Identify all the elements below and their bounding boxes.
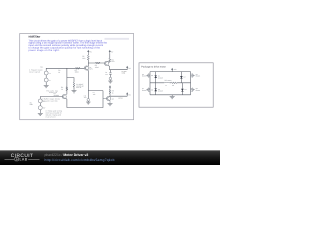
transistor Q3 xyxy=(106,96,110,100)
nmos Q6 xyxy=(191,73,195,77)
wire xyxy=(39,103,41,106)
transistor Q1 xyxy=(84,66,88,70)
Q2 collector wire xyxy=(108,61,109,63)
ground xyxy=(108,80,112,83)
voltage source V2b xyxy=(38,106,42,110)
svg-text:http://circuitlab.com/c/cmb4bu: http://circuitlab.com/c/cmb4bu5amg7qkcb xyxy=(45,158,115,162)
Q4 collector to vertical xyxy=(65,93,68,96)
Q2 emitter wire row xyxy=(108,65,127,70)
wire xyxy=(109,75,111,78)
bottom rail xyxy=(150,94,191,96)
net flag VG xyxy=(126,68,128,70)
voltage source V1b xyxy=(44,78,48,82)
svg-text:MOSFET Driver: MOSFET Driver xyxy=(29,36,41,39)
ground xyxy=(44,84,49,88)
motor resistor xyxy=(171,82,176,84)
annotation blue text block xyxy=(29,39,108,52)
wire collector node xyxy=(110,93,127,96)
svg-text:1k: 1k xyxy=(58,71,60,74)
meter M2 xyxy=(87,99,90,102)
sheet border xyxy=(20,34,134,120)
wire vertical to Q2 xyxy=(66,68,68,94)
wire xyxy=(45,82,47,84)
mid rail xyxy=(150,82,191,84)
transistor Q2 xyxy=(104,61,108,65)
nmos Q8 xyxy=(191,88,195,92)
svg-text:phar4221x / Motor Driver v2: phar4221x / Motor Driver v2 xyxy=(45,153,89,157)
resistor R5 xyxy=(109,90,111,94)
supply arrow Vbat xyxy=(171,69,173,71)
meter M1 xyxy=(109,77,112,80)
wire xyxy=(73,87,75,90)
wire xyxy=(45,75,47,78)
right leg wire xyxy=(190,72,192,95)
top rail xyxy=(150,71,191,73)
base wire from source chain xyxy=(40,97,62,99)
svg-text:power stage on the right.: power stage on the right. xyxy=(29,49,60,52)
motor inductor xyxy=(164,81,169,84)
diode D2 xyxy=(180,72,182,83)
ground xyxy=(72,89,77,93)
net flag VOUT xyxy=(126,94,128,96)
ground xyxy=(38,112,43,116)
svg-text:LAB: LAB xyxy=(20,158,28,162)
wire xyxy=(109,54,111,59)
Q1 collector wire up xyxy=(87,60,89,67)
supply arrow VCC1 xyxy=(87,51,89,53)
wire Q1 collector to Q2 base xyxy=(88,62,104,64)
circuitlab logo xyxy=(5,153,40,162)
supply arrow VCC2 xyxy=(109,51,111,53)
ground xyxy=(86,101,90,104)
svg-text:input signal: input signal xyxy=(29,71,41,74)
svg-text:1k: 1k xyxy=(61,88,63,91)
svg-text:sense: sense xyxy=(118,98,122,100)
wire xyxy=(87,54,89,56)
wire down xyxy=(87,91,89,99)
voltage source V1 xyxy=(44,71,48,75)
ground xyxy=(108,103,113,106)
left leg wire xyxy=(149,72,151,95)
Q4 emitter loop wire xyxy=(66,91,103,108)
svg-text:overshoot: overshoot xyxy=(46,115,57,118)
Q1 emitter chain xyxy=(87,70,103,91)
svg-text:Package to drive motor: Package to drive motor xyxy=(141,66,166,69)
wire xyxy=(39,110,41,112)
diode D4 xyxy=(181,83,183,95)
resistor R2 xyxy=(76,67,80,69)
capacitor C3 branch xyxy=(109,70,111,73)
ground xyxy=(170,95,175,99)
wire input top xyxy=(46,68,84,71)
resistor R2b collector pull-up xyxy=(87,55,89,60)
capacitor C2 xyxy=(73,82,75,87)
faint continuation row xyxy=(105,38,130,40)
diode D3 xyxy=(155,83,157,95)
resistor R4 xyxy=(109,58,111,62)
transistor Q4 xyxy=(62,95,66,99)
resistor R3 xyxy=(96,62,100,64)
resistor R6 xyxy=(66,87,68,91)
voltage source V2 xyxy=(38,99,42,103)
supply arrow VCC3 xyxy=(109,85,111,87)
nmos Q7 xyxy=(146,88,150,92)
package box xyxy=(139,63,213,107)
diode D1 xyxy=(155,72,157,83)
wire to C2 branch xyxy=(67,78,74,83)
nmos Q5 xyxy=(146,73,150,77)
svg-text:V2: V2 xyxy=(43,100,45,103)
